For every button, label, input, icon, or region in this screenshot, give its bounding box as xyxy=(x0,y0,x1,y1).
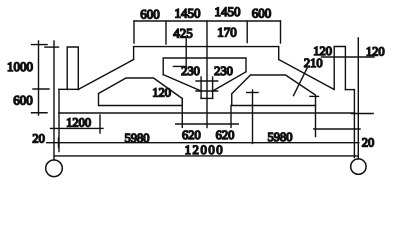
girder left edge xyxy=(58,89,60,113)
girder left top slope xyxy=(79,60,134,90)
tick far left top xyxy=(45,46,59,48)
pentagon crown top xyxy=(163,58,246,75)
tick far right bottom xyxy=(351,113,373,115)
svg-text:120: 120 xyxy=(152,86,171,100)
railing post right xyxy=(334,47,345,90)
svg-text:230: 230 xyxy=(214,64,233,78)
tick void right edge xyxy=(310,95,319,97)
tick left col mid xyxy=(33,88,49,90)
dim line 1200 xyxy=(51,127,104,129)
hatch key bar upper xyxy=(196,80,218,82)
girder left crown step xyxy=(133,47,135,60)
svg-text:1200: 1200 xyxy=(66,116,91,130)
svg-text:5980: 5980 xyxy=(125,131,150,145)
tick 1200 right xyxy=(99,115,101,133)
tick top dim x247 xyxy=(246,21,248,43)
tick 20 left xyxy=(58,138,60,147)
void right outline xyxy=(232,75,316,106)
svg-text:620: 620 xyxy=(216,128,235,142)
railing post left xyxy=(67,47,78,90)
dim line right lower xyxy=(314,128,360,130)
centerline xyxy=(206,21,208,128)
void left outline xyxy=(99,78,183,106)
leader 425 xyxy=(174,38,187,66)
edge extension left xyxy=(58,113,60,152)
hatch key bottom xyxy=(201,97,213,99)
extension line far left xyxy=(53,41,55,160)
girder deck top plateau xyxy=(134,46,279,48)
girder bottom xyxy=(59,112,354,114)
girder right edge top xyxy=(345,89,354,91)
svg-text:600: 600 xyxy=(140,7,160,22)
svg-text:1450: 1450 xyxy=(215,4,241,19)
svg-text:120: 120 xyxy=(366,44,385,58)
svg-text:600: 600 xyxy=(252,6,272,21)
dim line 620 620 xyxy=(176,123,239,125)
svg-text:600: 600 xyxy=(13,93,33,108)
pentagon right slope xyxy=(213,72,246,91)
svg-text:230: 230 xyxy=(181,64,200,78)
tick right lower xyxy=(315,106,317,137)
svg-text:12000: 12000 xyxy=(185,143,225,157)
hatch key vertical right xyxy=(212,77,214,98)
hatch key bar lower xyxy=(196,90,218,92)
tick top dim x166 xyxy=(165,21,167,44)
tick top dim x134 xyxy=(133,21,135,43)
svg-text:1450: 1450 xyxy=(175,6,201,21)
tick mid right xyxy=(247,92,258,94)
pentagon left slope xyxy=(163,75,201,91)
girder left edge top xyxy=(59,88,79,90)
dim line 5980 full xyxy=(47,142,359,144)
girder right edge xyxy=(353,90,355,113)
rail line right xyxy=(322,56,375,58)
tick 620 left xyxy=(181,99,183,128)
tick left col top xyxy=(32,44,48,46)
edge extension right xyxy=(353,113,355,158)
dim line top 600/1450/1450/600 xyxy=(134,20,281,22)
svg-text:425: 425 xyxy=(173,26,193,41)
svg-text:170: 170 xyxy=(217,25,237,40)
girder right crown step xyxy=(278,47,280,60)
extension line far right xyxy=(357,38,359,159)
dim column left xyxy=(38,41,40,115)
extension mid right xyxy=(252,90,254,143)
tick 620 right xyxy=(230,106,232,128)
leader 210 xyxy=(294,68,308,95)
svg-text:20: 20 xyxy=(32,132,45,146)
tick left col bottom xyxy=(32,112,48,114)
dim line 12000 xyxy=(54,155,358,157)
circle left xyxy=(46,160,63,177)
girder right top slope xyxy=(279,60,334,90)
svg-text:620: 620 xyxy=(182,128,201,142)
hatch key vertical left xyxy=(200,77,202,98)
svg-text:1000: 1000 xyxy=(7,59,33,74)
tick top dim x280.5 xyxy=(280,21,282,43)
circle right xyxy=(351,159,366,174)
svg-text:5980: 5980 xyxy=(268,130,293,144)
svg-text:20: 20 xyxy=(362,135,375,149)
svg-text:120: 120 xyxy=(313,44,332,58)
